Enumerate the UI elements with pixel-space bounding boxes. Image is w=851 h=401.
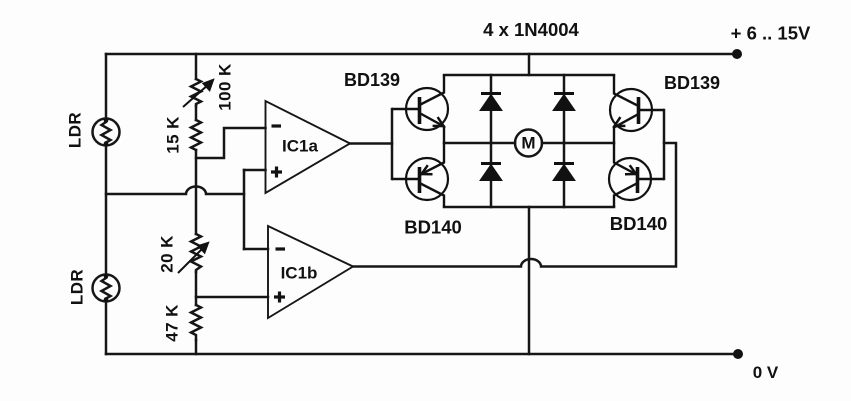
svg-text:15 K: 15 K	[164, 116, 183, 154]
svg-text:BD140: BD140	[610, 213, 668, 234]
svg-text:+ 6 .. 15V: + 6 .. 15V	[731, 23, 811, 44]
svg-text:IC1a: IC1a	[282, 137, 318, 156]
svg-text:47 K: 47 K	[163, 304, 182, 342]
svg-text:IC1b: IC1b	[281, 264, 318, 283]
svg-text:4 x 1N4004: 4 x 1N4004	[483, 19, 579, 40]
svg-text:M: M	[521, 134, 535, 153]
svg-text:BD139: BD139	[664, 73, 720, 93]
svg-text:BD140: BD140	[404, 217, 462, 238]
svg-text:LDR: LDR	[68, 269, 87, 305]
svg-text:20 K: 20 K	[158, 235, 177, 273]
svg-text:0 V: 0 V	[753, 363, 779, 382]
svg-text:BD139: BD139	[344, 70, 400, 90]
svg-text:LDR: LDR	[66, 112, 85, 148]
svg-text:100 K: 100 K	[216, 63, 235, 111]
